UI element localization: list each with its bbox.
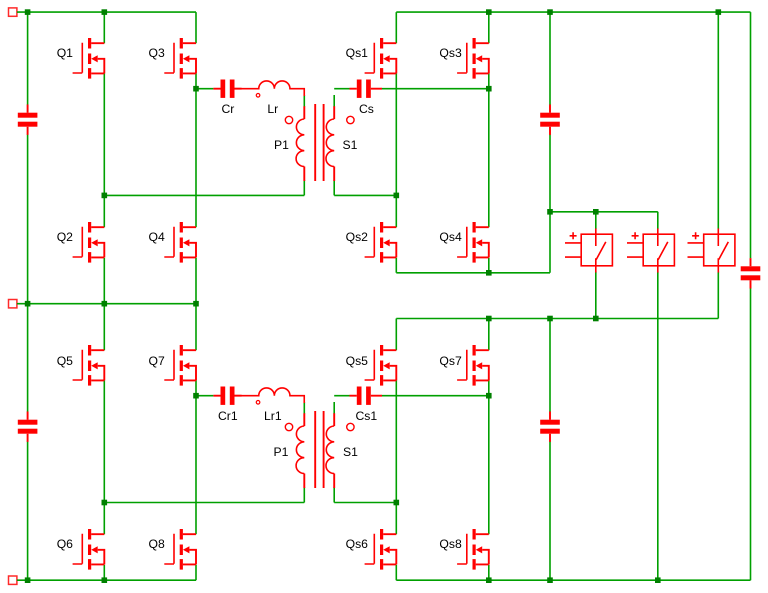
inductor Lr1 — [234, 388, 304, 404]
node Cs junction — [486, 86, 492, 92]
svg-text:Q3: Q3 — [149, 46, 165, 60]
wire leg Qs3-Qs4 — [488, 12, 490, 273]
wire leg Q7-Q8 — [195, 304, 197, 581]
capacitor Cin2 — [18, 412, 38, 442]
wire leg Q5-Q6 — [103, 304, 105, 581]
svg-text:Cs: Cs — [359, 102, 374, 116]
node mid rail J2 — [102, 301, 108, 307]
wire secondary top rail — [396, 11, 750, 13]
wire output cap2 column — [549, 319, 551, 581]
svg-text:Cr1: Cr1 — [218, 409, 238, 423]
wire input cap branch lower — [27, 304, 29, 581]
node bottom rail J3 — [486, 577, 492, 583]
wire transformer2 primary leads — [303, 402, 305, 503]
wire Cs to Qs3 midpoint — [382, 88, 489, 90]
wire leg Qs5-Qs6 — [395, 319, 397, 581]
wire top primary rail — [17, 11, 196, 13]
node top rail J5 — [716, 9, 722, 15]
capacitor Cr1 — [213, 387, 241, 405]
node mid rail J3 — [193, 301, 199, 307]
mosfet Qs7 — [457, 345, 489, 386]
wire secondary bottom rail — [396, 579, 750, 581]
wire leg Qs7-Qs8 — [488, 319, 490, 581]
port P3 input bottom-left — [9, 576, 17, 584]
wire transformer2 secondary top — [334, 396, 349, 414]
mosfet Q4 — [164, 222, 196, 263]
node Cr1 junction — [193, 393, 199, 399]
wire input cap branch upper — [27, 12, 29, 304]
battery switch B1 — [565, 229, 612, 273]
mosfet Qs1 — [365, 38, 397, 79]
wire bridge1 bottom — [396, 212, 550, 273]
svg-text:Qs8: Qs8 — [439, 537, 462, 551]
svg-text:Cs1: Cs1 — [356, 409, 378, 423]
svg-text:P1: P1 — [274, 445, 289, 459]
capacitor Cs1 — [350, 387, 383, 405]
mosfet Qs5 — [365, 345, 397, 386]
mosfet Q6 — [73, 529, 105, 570]
wire leg Q3-Q4 — [195, 12, 197, 304]
node primary return J2 — [102, 500, 108, 506]
node bottom rail J4 — [547, 577, 553, 583]
node top rail J3 — [486, 9, 492, 15]
svg-text:S1: S1 — [343, 445, 358, 459]
wire battery bus — [550, 211, 658, 213]
mosfet Qs2 — [365, 222, 397, 263]
svg-text:Q4: Q4 — [149, 230, 165, 244]
svg-text:Qs5: Qs5 — [346, 354, 369, 368]
node secondary return J1 — [394, 193, 400, 199]
capacitor Cr — [213, 80, 241, 98]
wire battery2 leads — [657, 212, 659, 580]
capacitor Cin1 — [18, 105, 38, 135]
svg-text:Qs3: Qs3 — [439, 46, 462, 60]
inductor Lr — [234, 81, 304, 97]
node top rail J2 — [102, 9, 108, 15]
svg-text:Qs4: Qs4 — [439, 230, 462, 244]
mosfet Qs8 — [457, 529, 489, 570]
mosfet Q5 — [73, 345, 105, 386]
svg-text:S1: S1 — [343, 138, 358, 152]
wire right cap column — [750, 12, 752, 580]
wire transformer1 secondary bottom — [334, 180, 396, 195]
node sec rail J2 — [547, 316, 553, 322]
svg-text:Q1: Q1 — [57, 46, 73, 60]
svg-text:Lr: Lr — [267, 102, 278, 116]
mosfet Qs3 — [457, 38, 489, 79]
svg-text:Q6: Q6 — [57, 537, 73, 551]
svg-text:Qs1: Qs1 — [346, 46, 369, 60]
wire transformer1 secondary top — [334, 89, 349, 107]
svg-text:Qs7: Qs7 — [439, 354, 462, 368]
mosfet Q8 — [164, 529, 196, 570]
capacitor Cout1 — [540, 105, 560, 135]
transformer T2 — [285, 411, 354, 488]
wire transformer1 primary leads — [303, 95, 305, 195]
wire bottom primary rail — [17, 579, 196, 581]
mosfet Q2 — [73, 222, 105, 263]
node sec rail J3 — [593, 316, 599, 322]
wire battery3 leads — [717, 12, 719, 318]
node bus J2 — [593, 209, 599, 215]
port P1 input top-left — [9, 8, 17, 16]
wire Cr1 junction — [196, 395, 213, 397]
wire Cr junction — [196, 88, 213, 90]
svg-text:Qs2: Qs2 — [346, 230, 369, 244]
transformer T1 — [285, 104, 354, 181]
svg-text:Q2: Q2 — [57, 230, 73, 244]
mosfet Q7 — [164, 345, 196, 386]
node Cr junction — [193, 86, 199, 92]
svg-text:Q5: Q5 — [57, 354, 73, 368]
capacitor Cright — [741, 258, 761, 288]
wire leg Qs1-Qs2 — [395, 12, 397, 273]
node bottom rail J1 — [25, 577, 31, 583]
wire output cap1 column — [549, 12, 551, 212]
node sec rail J1 — [486, 316, 492, 322]
svg-text:Cr: Cr — [222, 102, 235, 116]
capacitor Cout2 — [540, 412, 560, 442]
node bus J1 — [547, 209, 553, 215]
mosfet Q3 — [164, 38, 196, 79]
wire transformer2 secondary bottom — [334, 487, 396, 503]
node top rail J1 — [25, 9, 31, 15]
wire primary return bottom — [104, 502, 304, 504]
node top rail J4 — [547, 9, 553, 15]
mosfet Qs6 — [365, 529, 397, 570]
wire mid primary rail — [17, 303, 196, 305]
svg-text:P1: P1 — [274, 138, 289, 152]
wire secondary mid rail — [396, 318, 718, 320]
mosfet Qs4 — [457, 222, 489, 263]
node bottom rail J5 — [655, 577, 661, 583]
node bridge1 bottom J — [486, 270, 492, 276]
battery switch B2 — [627, 229, 674, 273]
wire primary return top — [104, 194, 304, 196]
mosfet Q1 — [73, 38, 105, 79]
svg-text:Qs6: Qs6 — [346, 537, 369, 551]
svg-text:Lr1: Lr1 — [264, 409, 282, 423]
svg-text:Q7: Q7 — [149, 354, 165, 368]
wire battery1 leads — [595, 212, 597, 319]
wire Cs1 to Qs7 midpoint — [382, 395, 489, 397]
wire leg Q1-Q2 — [103, 12, 105, 304]
node Cs1 junction — [486, 393, 492, 399]
node mid rail J1 — [25, 301, 31, 307]
node secondary return J2 — [394, 500, 400, 506]
node bottom rail J2 — [102, 577, 108, 583]
svg-text:Q8: Q8 — [149, 537, 165, 551]
capacitor Cs — [350, 80, 383, 98]
port P2 input mid-left — [9, 300, 17, 308]
battery switch B3 — [688, 229, 735, 273]
node primary return J1 — [102, 193, 108, 199]
